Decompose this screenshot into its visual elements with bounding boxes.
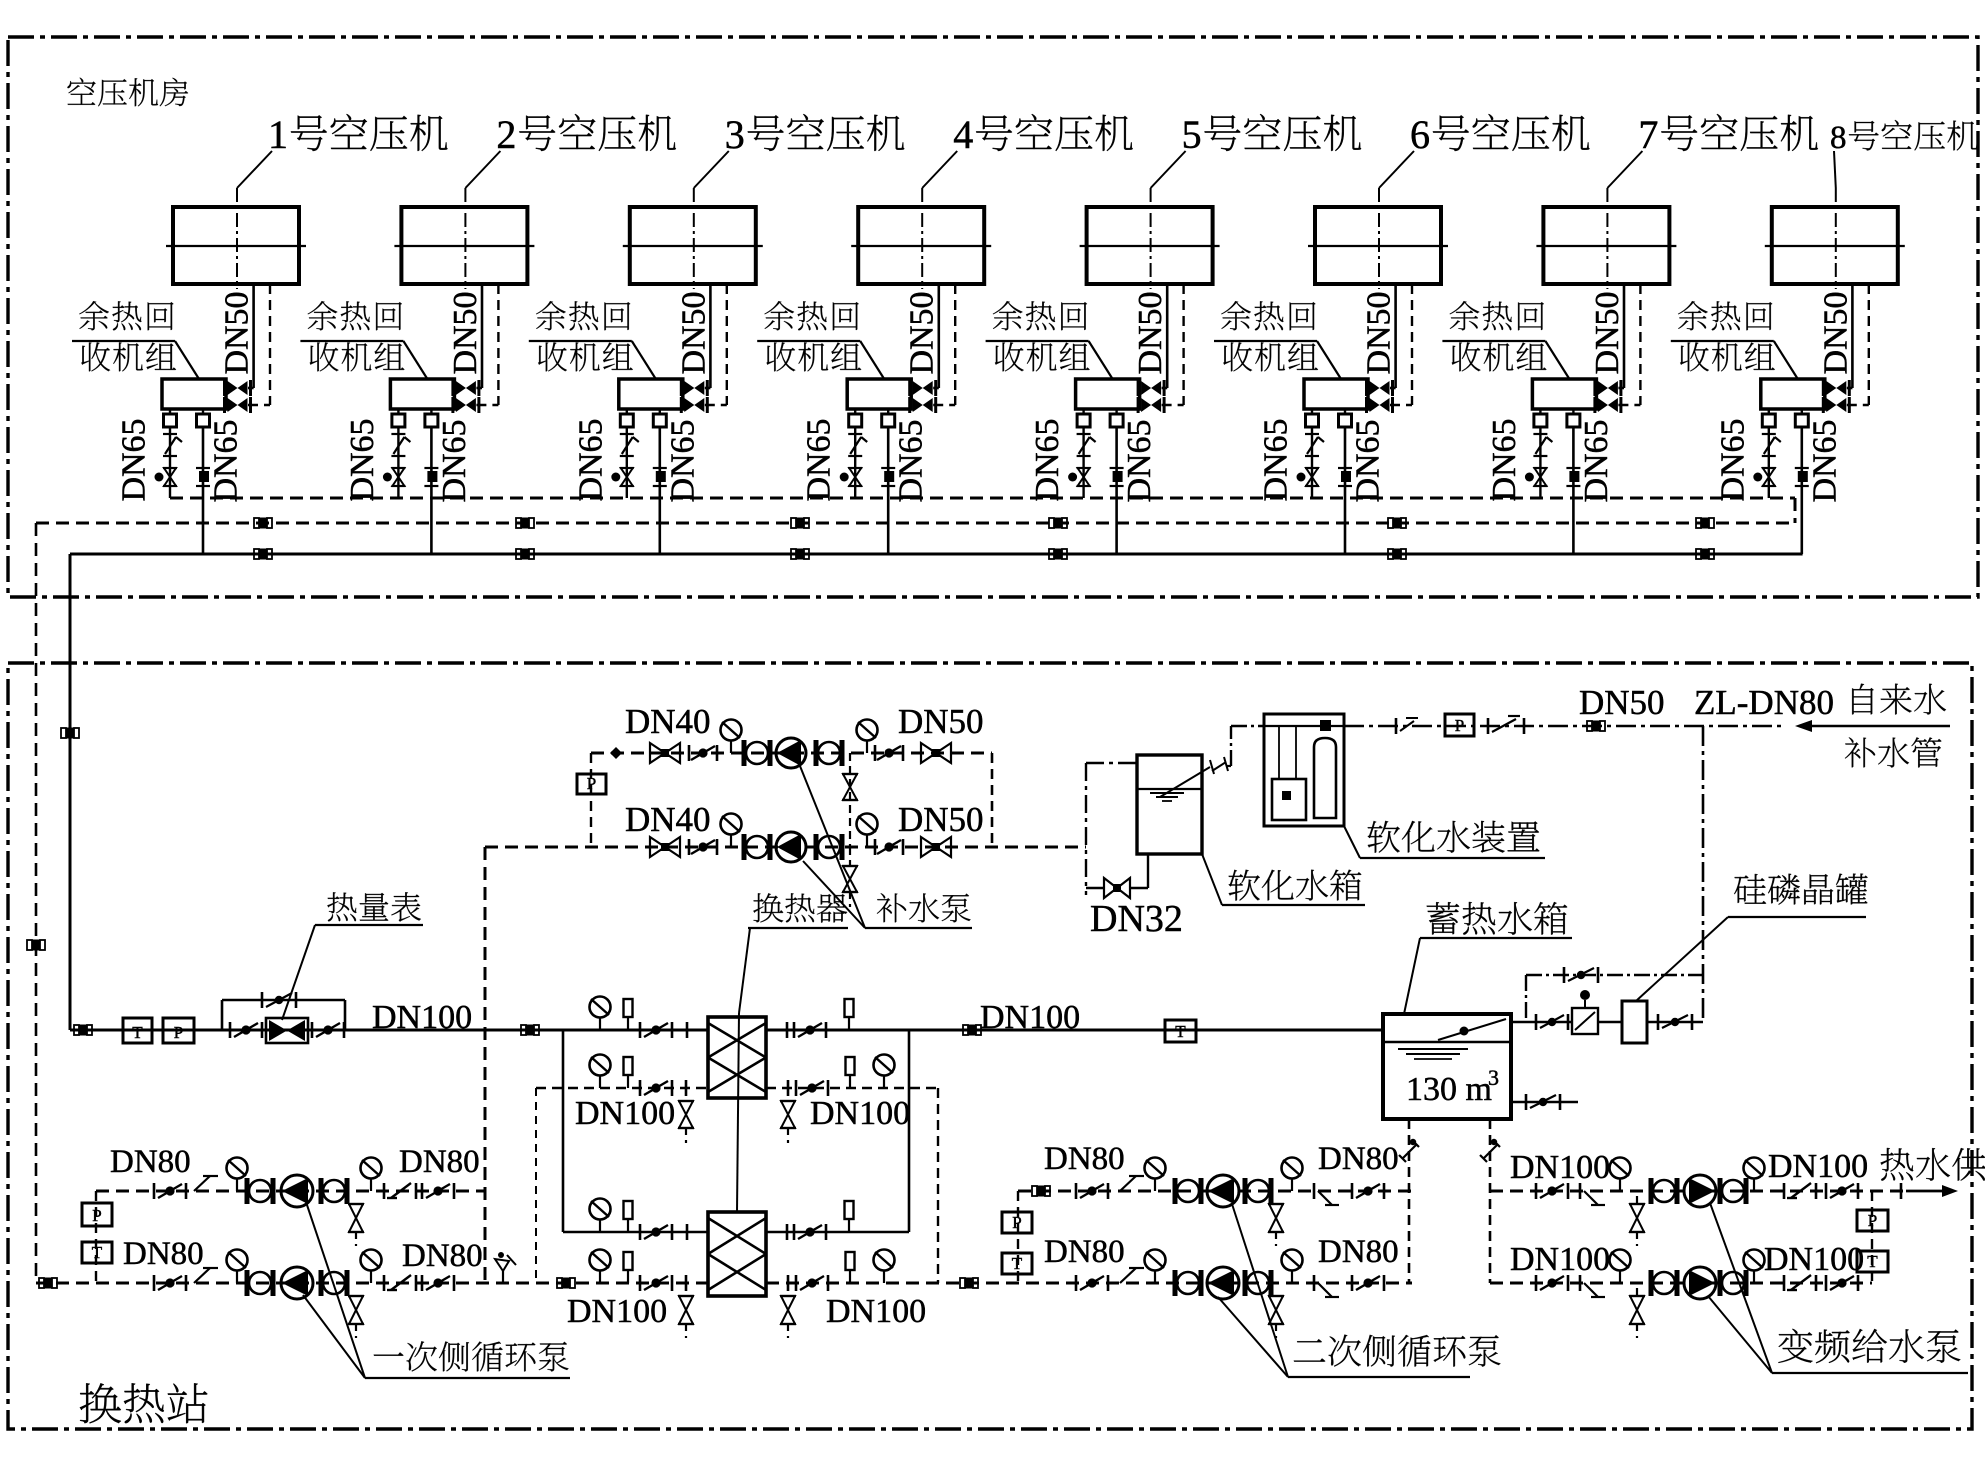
svg-text:DN50: DN50 <box>904 291 941 374</box>
svg-text:DN100: DN100 <box>810 1095 910 1132</box>
svg-text:DN50: DN50 <box>1132 291 1169 374</box>
svg-text:DN100: DN100 <box>575 1095 675 1132</box>
svg-text:DN65: DN65 <box>1258 418 1295 501</box>
svg-text:DN80: DN80 <box>402 1238 483 1274</box>
svg-text:T: T <box>1012 1254 1023 1273</box>
svg-text:DN50: DN50 <box>898 702 984 741</box>
svg-text:T: T <box>92 1243 103 1262</box>
svg-text:DN65: DN65 <box>436 419 473 502</box>
svg-text:T: T <box>1867 1252 1878 1271</box>
svg-text:P: P <box>1455 716 1464 735</box>
svg-text:DN65: DN65 <box>1578 419 1615 502</box>
svg-text:DN65: DN65 <box>801 418 838 501</box>
svg-text:DN65: DN65 <box>1121 419 1158 502</box>
svg-text:DN50: DN50 <box>1817 291 1854 374</box>
svg-text:P: P <box>587 774 596 793</box>
svg-text:DN80: DN80 <box>1318 1234 1399 1270</box>
svg-text:DN50: DN50 <box>219 291 256 374</box>
svg-text:DN65: DN65 <box>1806 419 1843 502</box>
svg-text:DN65: DN65 <box>1350 419 1387 502</box>
svg-text:DN50: DN50 <box>898 800 984 839</box>
svg-text:6: 6 <box>1410 112 1430 157</box>
svg-text:ZL-DN80: ZL-DN80 <box>1694 683 1834 722</box>
svg-text:DN65: DN65 <box>1714 418 1751 501</box>
svg-text:1: 1 <box>268 112 288 157</box>
svg-text:DN50: DN50 <box>675 291 712 374</box>
svg-text:P: P <box>1868 1211 1877 1230</box>
svg-text:P: P <box>174 1023 183 1042</box>
svg-text:DN100: DN100 <box>826 1293 926 1330</box>
svg-text:DN100: DN100 <box>1510 1241 1610 1278</box>
svg-text:DN65: DN65 <box>1486 418 1523 501</box>
svg-text:DN65: DN65 <box>208 419 245 502</box>
svg-text:5: 5 <box>1182 112 1202 157</box>
svg-text:P: P <box>1012 1213 1021 1232</box>
svg-text:DN100: DN100 <box>372 999 472 1036</box>
svg-text:DN65: DN65 <box>1029 418 1066 501</box>
svg-text:DN80: DN80 <box>1044 1141 1125 1177</box>
svg-text:DN100: DN100 <box>1764 1241 1864 1278</box>
svg-text:DN50: DN50 <box>1589 291 1626 374</box>
svg-text:4: 4 <box>953 112 973 157</box>
svg-text:DN80: DN80 <box>123 1236 204 1272</box>
svg-text:DN65: DN65 <box>664 419 701 502</box>
svg-text:7: 7 <box>1638 112 1658 157</box>
svg-text:3: 3 <box>725 112 745 157</box>
svg-text:DN80: DN80 <box>1318 1141 1399 1177</box>
svg-text:DN50: DN50 <box>1361 291 1398 374</box>
svg-text:T: T <box>132 1023 143 1042</box>
svg-text:T: T <box>1175 1022 1186 1041</box>
svg-text:DN50: DN50 <box>447 291 484 374</box>
svg-text:DN65: DN65 <box>572 418 609 501</box>
svg-text:DN50: DN50 <box>1579 683 1665 722</box>
svg-text:DN100: DN100 <box>1510 1149 1610 1186</box>
svg-text:8: 8 <box>1830 120 1847 156</box>
svg-text:DN80: DN80 <box>110 1144 191 1180</box>
svg-text:DN65: DN65 <box>344 418 381 501</box>
svg-text:130 m: 130 m <box>1406 1071 1492 1108</box>
svg-text:DN80: DN80 <box>1044 1234 1125 1270</box>
svg-text:2: 2 <box>496 112 516 157</box>
svg-text:P: P <box>92 1206 101 1225</box>
svg-text:3: 3 <box>1488 1065 1499 1090</box>
svg-text:DN32: DN32 <box>1090 898 1183 940</box>
svg-text:DN100: DN100 <box>567 1293 667 1330</box>
svg-text:DN40: DN40 <box>625 702 711 741</box>
svg-text:DN80: DN80 <box>399 1144 480 1180</box>
svg-text:DN65: DN65 <box>116 418 153 501</box>
svg-text:DN65: DN65 <box>893 419 930 502</box>
svg-text:DN100: DN100 <box>1768 1148 1868 1185</box>
svg-text:DN40: DN40 <box>625 800 711 839</box>
svg-text:DN100: DN100 <box>980 999 1080 1036</box>
